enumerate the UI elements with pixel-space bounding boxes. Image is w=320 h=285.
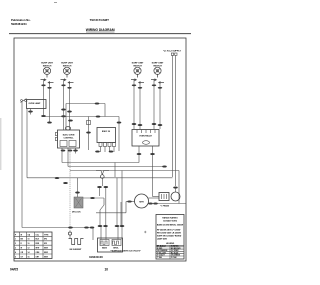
svg-text:"*SURFACE UNITS 120 VOLTS": "*SURFACE UNITS 120 VOLTS" <box>110 250 141 253</box>
svg-text:BAKE 2100W BROIL 3000W: BAKE 2100W BROIL 3000W <box>157 224 183 227</box>
svg-text:P PINK: P PINK <box>171 257 177 259</box>
svg-text:COL: COL <box>36 234 40 236</box>
svg-text:14: 14 <box>28 251 30 254</box>
svg-text:10: 10 <box>28 243 30 245</box>
svg-text:RF 2400W 240V LF 1250W: RF 2400W 240V LF 1250W <box>157 229 181 232</box>
svg-text:MTR: MTR <box>139 202 144 204</box>
svg-text:BK ELEMENT: BK ELEMENT <box>70 249 83 251</box>
svg-text:10: 10 <box>28 239 30 241</box>
svg-text:RANGE RATING: RANGE RATING <box>162 217 178 220</box>
svg-text:WIRING DIAGRAM: WIRING DIAGRAM <box>86 28 115 32</box>
svg-text:SF2: SF2 <box>44 243 47 245</box>
svg-text:5: 5 <box>15 256 16 258</box>
svg-text:LEGEND: LEGEND <box>166 243 175 245</box>
svg-text:*L1 N L2 SUPPLY: *L1 N L2 SUPPLY <box>163 51 181 53</box>
svg-text:16: 16 <box>28 256 30 258</box>
svg-text:316231100: 316231100 <box>89 255 103 259</box>
svg-text:5995381234: 5995381234 <box>11 22 27 26</box>
svg-text:CONTROL: CONTROL <box>64 137 75 139</box>
svg-text:T TAN: T TAN <box>157 256 163 259</box>
svg-text:10: 10 <box>105 268 109 272</box>
svg-text:ELEC OVEN: ELEC OVEN <box>63 135 75 137</box>
svg-text:LAMP 40W: LAMP 40W <box>157 238 167 241</box>
svg-text:04/05: 04/05 <box>10 268 18 272</box>
svg-text:OVEN LAMP: OVEN LAMP <box>29 102 42 105</box>
svg-text:OVEN RELAY: OVEN RELAY <box>139 135 152 138</box>
svg-text:SURF SW 120/240V RATED: SURF SW 120/240V RATED <box>157 235 182 238</box>
svg-text:12: 12 <box>28 248 30 250</box>
svg-text:TEF317GSMT: TEF317GSMT <box>90 18 110 22</box>
svg-text:3: 3 <box>15 248 16 250</box>
svg-text:DR LOCK: DR LOCK <box>72 212 81 214</box>
svg-text:120/240V 60HZ: 120/240V 60HZ <box>163 220 178 223</box>
svg-text:* 1 PHASE: * 1 PHASE <box>160 205 170 208</box>
svg-text:RR 1250W 240V LR 2400W: RR 1250W 240V LR 2400W <box>157 231 181 234</box>
svg-text:4: 4 <box>15 251 16 254</box>
svg-text:SF2: SF2 <box>44 239 47 241</box>
svg-text:BROIL: BROIL <box>113 248 118 250</box>
svg-text:2: 2 <box>15 243 16 245</box>
svg-text:SEW: SEW <box>44 252 48 254</box>
svg-text:1: 1 <box>15 239 16 241</box>
svg-text:SEW: SEW <box>44 248 48 250</box>
svg-text:ESEC 30: ESEC 30 <box>102 131 111 133</box>
svg-text:SEW: SEW <box>44 256 48 258</box>
